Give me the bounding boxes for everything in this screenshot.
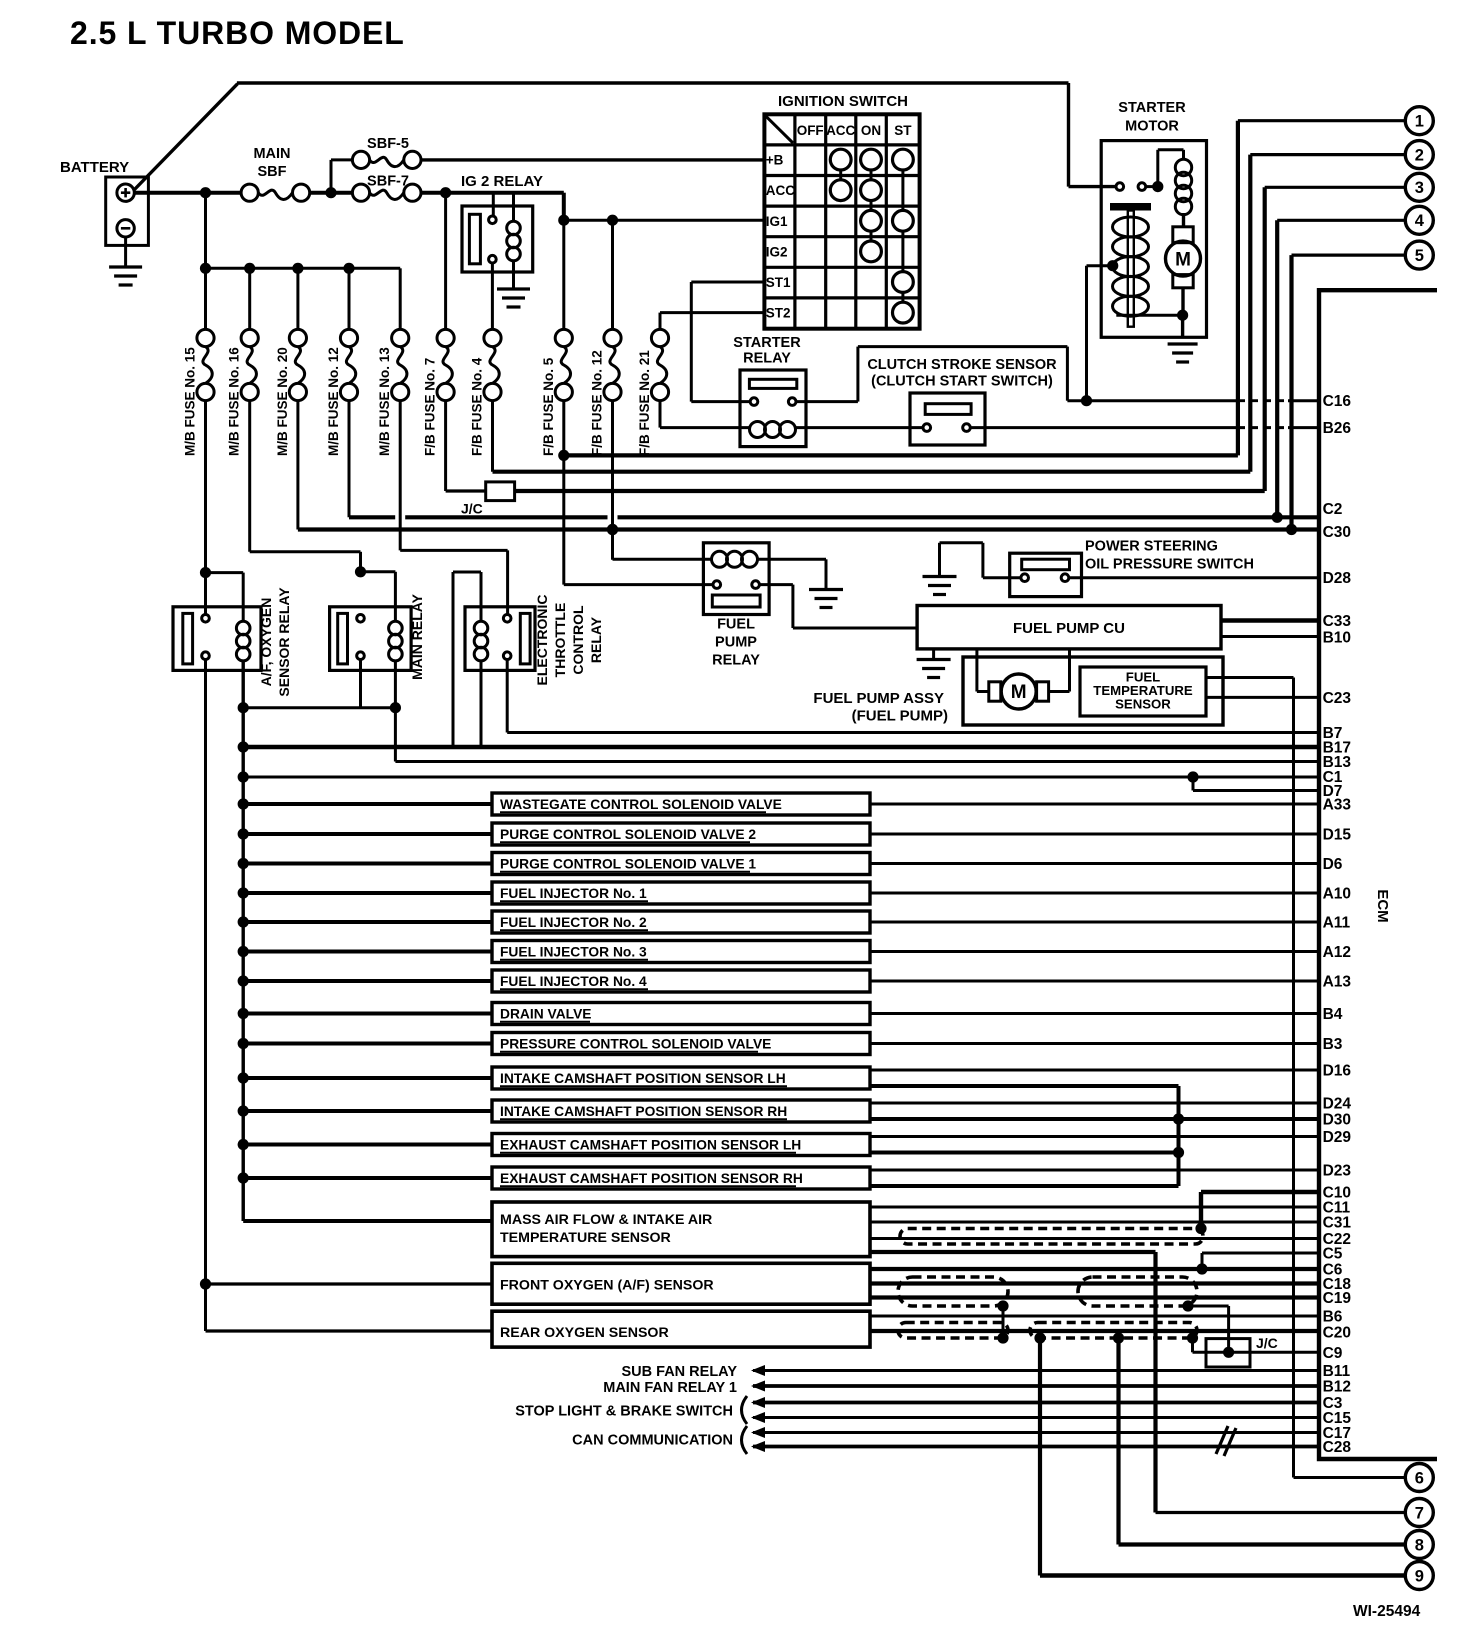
svg-text:D29: D29 — [1323, 1129, 1352, 1146]
svg-text:M/B FUSE No. 13: M/B FUSE No. 13 — [377, 347, 392, 456]
svg-text:ON: ON — [861, 123, 881, 138]
svg-text:(CLUTCH START SWITCH): (CLUTCH START SWITCH) — [871, 374, 1053, 390]
svg-text:A33: A33 — [1323, 797, 1352, 814]
svg-text:B11: B11 — [1323, 1363, 1351, 1380]
svg-text:C23: C23 — [1323, 690, 1352, 707]
svg-text:FUEL INJECTOR No. 3: FUEL INJECTOR No. 3 — [500, 944, 647, 959]
svg-text:D23: D23 — [1323, 1163, 1352, 1180]
svg-text:FUEL INJECTOR No. 4: FUEL INJECTOR No. 4 — [500, 974, 647, 989]
svg-text:C30: C30 — [1323, 524, 1351, 541]
svg-text:B4: B4 — [1323, 1006, 1343, 1023]
svg-text:B26: B26 — [1323, 420, 1352, 437]
svg-text:CLUTCH STROKE SENSOR: CLUTCH STROKE SENSOR — [867, 357, 1057, 373]
svg-text:M/B FUSE No. 15: M/B FUSE No. 15 — [183, 347, 198, 456]
svg-text:2: 2 — [1415, 146, 1424, 164]
svg-text:D30: D30 — [1323, 1112, 1351, 1129]
svg-text:SENSOR: SENSOR — [1115, 697, 1171, 712]
svg-text:SENSOR RELAY: SENSOR RELAY — [276, 587, 292, 697]
svg-text:INTAKE CAMSHAFT POSITION SENSO: INTAKE CAMSHAFT POSITION SENSOR LH — [500, 1071, 786, 1086]
svg-text:DRAIN VALVE: DRAIN VALVE — [500, 1006, 591, 1021]
svg-text:IGNITION SWITCH: IGNITION SWITCH — [778, 93, 908, 110]
svg-text:POWER STEERING: POWER STEERING — [1085, 539, 1218, 555]
svg-text:IG 2 RELAY: IG 2 RELAY — [461, 173, 543, 190]
svg-text:B3: B3 — [1323, 1036, 1343, 1053]
svg-text:EXHAUST CAMSHAFT POSITION SENS: EXHAUST CAMSHAFT POSITION SENSOR LH — [500, 1137, 801, 1152]
svg-text:M: M — [1175, 249, 1191, 270]
svg-text:A/F, OXYGEN: A/F, OXYGEN — [258, 598, 274, 687]
svg-text:4: 4 — [1415, 212, 1425, 230]
svg-text:C2: C2 — [1323, 501, 1343, 518]
svg-text:M: M — [1011, 682, 1027, 703]
svg-text:C20: C20 — [1323, 1325, 1351, 1342]
svg-text:SBF-7: SBF-7 — [367, 174, 409, 190]
svg-text:STARTER: STARTER — [733, 335, 801, 351]
svg-text:5: 5 — [1415, 247, 1424, 265]
svg-text:MASS AIR FLOW & INTAKE AIR: MASS AIR FLOW & INTAKE AIR — [500, 1212, 712, 1228]
svg-text:ELECTRONIC: ELECTRONIC — [534, 595, 550, 686]
svg-text:IG1: IG1 — [766, 214, 788, 229]
svg-text:RELAY: RELAY — [712, 653, 760, 669]
svg-text:WASTEGATE CONTROL SOLENOID VAL: WASTEGATE CONTROL SOLENOID VALVE — [500, 797, 782, 812]
svg-text:D16: D16 — [1323, 1063, 1352, 1080]
svg-text:IG2: IG2 — [766, 244, 788, 259]
svg-text:8: 8 — [1415, 1536, 1424, 1554]
svg-text:PRESSURE CONTROL SOLENOID VALV: PRESSURE CONTROL SOLENOID VALVE — [500, 1036, 771, 1051]
svg-text:J/C: J/C — [461, 501, 483, 517]
svg-text:ACC: ACC — [766, 183, 795, 198]
svg-text:C33: C33 — [1323, 613, 1352, 630]
svg-text:INTAKE CAMSHAFT POSITION SENSO: INTAKE CAMSHAFT POSITION SENSOR RH — [500, 1104, 787, 1119]
svg-text:MAIN: MAIN — [253, 146, 290, 162]
svg-text:A10: A10 — [1323, 886, 1351, 903]
svg-text:SBF-5: SBF-5 — [367, 136, 409, 152]
svg-text:FUEL PUMP CU: FUEL PUMP CU — [1013, 620, 1125, 637]
svg-text:D6: D6 — [1323, 856, 1343, 873]
svg-text:PURGE CONTROL SOLENOID VALVE 1: PURGE CONTROL SOLENOID VALVE 1 — [500, 856, 756, 871]
svg-text:+B: +B — [766, 153, 784, 168]
svg-text:EXHAUST CAMSHAFT POSITION SENS: EXHAUST CAMSHAFT POSITION SENSOR RH — [500, 1171, 803, 1186]
svg-text:SUB FAN RELAY: SUB FAN RELAY — [622, 1364, 738, 1380]
svg-text:PUMP: PUMP — [715, 635, 757, 651]
svg-text:OFF: OFF — [797, 123, 824, 138]
svg-text:REAR OXYGEN SENSOR: REAR OXYGEN SENSOR — [500, 1325, 669, 1341]
svg-text:A12: A12 — [1323, 944, 1351, 961]
svg-text:FRONT OXYGEN (A/F) SENSOR: FRONT OXYGEN (A/F) SENSOR — [500, 1278, 714, 1294]
svg-text:TEMPERATURE SENSOR: TEMPERATURE SENSOR — [500, 1230, 671, 1246]
svg-text:C5: C5 — [1323, 1246, 1343, 1263]
svg-text:M/B FUSE No. 12: M/B FUSE No. 12 — [326, 347, 341, 456]
svg-text:RELAY: RELAY — [743, 351, 791, 367]
svg-text:2.5 L TURBO MODEL: 2.5 L TURBO MODEL — [70, 15, 405, 51]
svg-text:SBF: SBF — [258, 164, 287, 180]
svg-text:F/B FUSE No. 7: F/B FUSE No. 7 — [423, 358, 438, 456]
svg-text:F/B FUSE No. 5: F/B FUSE No. 5 — [541, 357, 556, 456]
svg-text:C31: C31 — [1323, 1215, 1352, 1232]
svg-text:FUEL INJECTOR No. 1: FUEL INJECTOR No. 1 — [500, 886, 647, 901]
svg-text:A11: A11 — [1323, 915, 1351, 932]
svg-text:7: 7 — [1415, 1504, 1424, 1522]
svg-text:B10: B10 — [1323, 630, 1351, 647]
svg-text:C9: C9 — [1323, 1345, 1343, 1362]
svg-text:CONTROL: CONTROL — [570, 605, 586, 675]
svg-text:STARTER: STARTER — [1118, 100, 1186, 116]
svg-text:ST2: ST2 — [766, 306, 791, 321]
svg-text:3: 3 — [1415, 179, 1424, 197]
svg-text:M/B FUSE No. 20: M/B FUSE No. 20 — [275, 347, 290, 456]
svg-text:THROTTLE: THROTTLE — [552, 603, 568, 678]
svg-text:C16: C16 — [1323, 393, 1352, 410]
svg-text:CAN COMMUNICATION: CAN COMMUNICATION — [572, 1433, 733, 1449]
svg-text:WI-25494: WI-25494 — [1353, 1603, 1421, 1620]
svg-text:ST: ST — [894, 123, 912, 138]
svg-text:ECM: ECM — [1374, 889, 1391, 922]
svg-text:STOP LIGHT & BRAKE SWITCH: STOP LIGHT & BRAKE SWITCH — [515, 1404, 733, 1420]
svg-text:(FUEL PUMP): (FUEL PUMP) — [852, 708, 948, 725]
svg-text:FUEL PUMP ASSY: FUEL PUMP ASSY — [813, 690, 944, 707]
svg-text:1: 1 — [1415, 113, 1424, 131]
svg-text:PURGE CONTROL SOLENOID VALVE 2: PURGE CONTROL SOLENOID VALVE 2 — [500, 827, 756, 842]
svg-text:F/B FUSE No. 12: F/B FUSE No. 12 — [590, 350, 605, 456]
svg-text:D24: D24 — [1323, 1096, 1352, 1113]
svg-text:C19: C19 — [1323, 1290, 1352, 1307]
svg-text:J/C: J/C — [1256, 1335, 1278, 1351]
svg-text:FUEL: FUEL — [717, 617, 755, 633]
svg-text:MOTOR: MOTOR — [1125, 119, 1179, 135]
svg-text:9: 9 — [1415, 1567, 1424, 1585]
svg-text:D28: D28 — [1323, 570, 1352, 587]
svg-text:B6: B6 — [1323, 1309, 1343, 1326]
svg-text:ST1: ST1 — [766, 275, 791, 290]
svg-text:OIL PRESSURE SWITCH: OIL PRESSURE SWITCH — [1085, 557, 1254, 573]
svg-text:A13: A13 — [1323, 974, 1352, 991]
svg-text:ACC: ACC — [826, 123, 855, 138]
svg-text:B12: B12 — [1323, 1379, 1351, 1396]
svg-text:BATTERY: BATTERY — [60, 159, 129, 176]
svg-text:MAIN RELAY: MAIN RELAY — [409, 593, 425, 679]
svg-text:6: 6 — [1415, 1469, 1424, 1487]
svg-text:F/B FUSE No. 4: F/B FUSE No. 4 — [470, 357, 485, 456]
svg-text:D15: D15 — [1323, 827, 1352, 844]
svg-text:RELAY: RELAY — [588, 616, 604, 663]
svg-text:F/B FUSE No. 21: F/B FUSE No. 21 — [637, 350, 652, 456]
svg-text:FUEL INJECTOR No. 2: FUEL INJECTOR No. 2 — [500, 915, 647, 930]
svg-text:MAIN FAN RELAY 1: MAIN FAN RELAY 1 — [603, 1380, 737, 1396]
svg-text:C28: C28 — [1323, 1439, 1352, 1456]
svg-text:M/B FUSE No. 16: M/B FUSE No. 16 — [227, 347, 242, 456]
